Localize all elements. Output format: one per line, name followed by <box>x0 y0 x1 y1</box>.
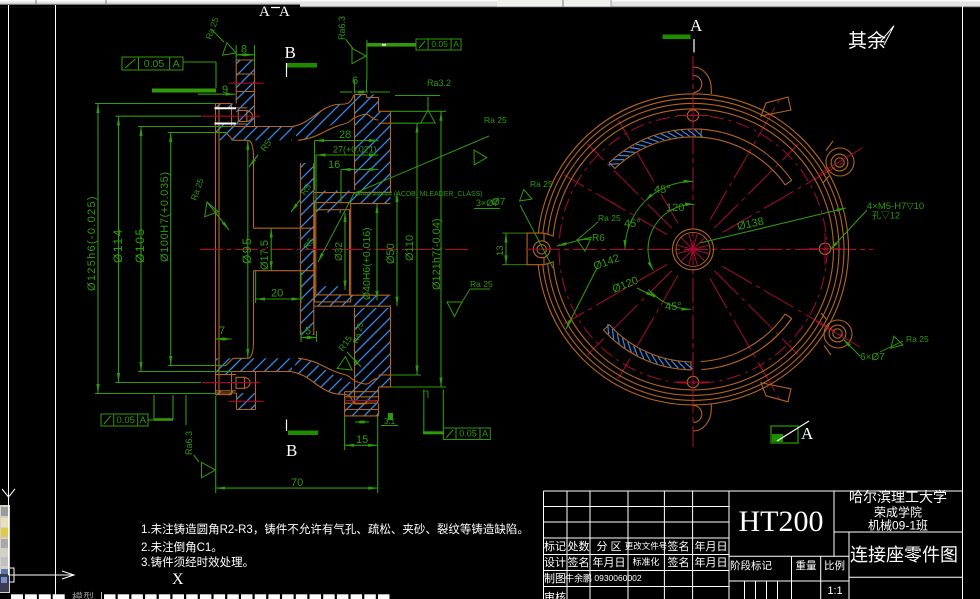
svg-text:Ra3.2: Ra3.2 <box>427 78 451 88</box>
svg-text:Ra 25: Ra 25 <box>470 279 493 289</box>
bottom status/tabs sliver <box>11 594 23 599</box>
svg-text:更改文件号: 更改文件号 <box>625 541 668 551</box>
svg-text:0930060002: 0930060002 <box>594 573 642 583</box>
red bolt circle <box>559 115 827 383</box>
center hub <box>673 229 714 270</box>
svg-text:0.05: 0.05 <box>144 58 165 70</box>
svg-text:Ø40H6(+0.016): Ø40H6(+0.016) <box>361 227 373 300</box>
svg-text:B: B <box>286 441 297 460</box>
svg-text:A: A <box>482 429 488 439</box>
drawing frame border lines <box>8 5 10 593</box>
svg-text:签名: 签名 <box>668 555 690 569</box>
svg-text:审核: 审核 <box>544 590 566 599</box>
svg-text:20: 20 <box>271 288 283 300</box>
svg-text:45°: 45° <box>665 301 682 313</box>
title block <box>544 491 963 599</box>
dim 13 at left ear <box>505 233 507 265</box>
svg-text:年月日: 年月日 <box>593 555 626 569</box>
svg-text:签名: 签名 <box>668 539 690 553</box>
svg-text:45°: 45° <box>654 184 671 196</box>
dims: diameter stack <box>97 104 99 394</box>
svg-text:Ø105: Ø105 <box>133 227 147 263</box>
rim pads at 60 and 240 deg <box>761 97 791 116</box>
svg-text:哈尔滨理工大学: 哈尔滨理工大学 <box>849 489 947 505</box>
left ear <box>527 233 556 265</box>
UCS icon <box>8 483 10 575</box>
svg-text:分 区: 分 区 <box>596 540 621 553</box>
svg-text:Ra6.3: Ra6.3 <box>184 431 194 455</box>
lower-right ear <box>824 320 852 348</box>
svg-text:阶段标记: 阶段标记 <box>730 559 772 572</box>
section view A-A : orange outline <box>216 60 391 416</box>
svg-text:5: 5 <box>305 326 311 338</box>
svg-text:签名: 签名 <box>568 555 590 569</box>
svg-text:模型: 模型 <box>72 590 94 599</box>
svg-text:6×Ø7: 6×Ø7 <box>860 352 885 363</box>
svg-text:16: 16 <box>328 159 340 171</box>
svg-text:Ø121h7(-0.04): Ø121h7(-0.04) <box>431 218 443 290</box>
svg-text:Ø50: Ø50 <box>385 243 397 264</box>
svg-text:Ø17.5: Ø17.5 <box>259 240 271 270</box>
svg-text:2.未注倒角C1。: 2.未注倒角C1。 <box>141 540 223 554</box>
svg-text:R6: R6 <box>592 233 605 244</box>
svg-text:Ra6.3: Ra6.3 <box>337 16 347 40</box>
svg-text:Ø125h6(-0.025): Ø125h6(-0.025) <box>86 195 98 291</box>
left docked toolbar sliver <box>0 505 10 593</box>
svg-text:A: A <box>279 4 290 20</box>
svg-text:#### ##### (ACDB_MLEADER_CLASS: #### ##### (ACDB_MLEADER_CLASS) <box>355 191 483 198</box>
red center axes & spokes <box>536 248 873 250</box>
svg-text:Ra 25: Ra 25 <box>598 213 621 223</box>
svg-text:1:1: 1:1 <box>827 585 842 597</box>
upper-right ear <box>826 148 854 176</box>
svg-text:荣成学院: 荣成学院 <box>874 505 922 520</box>
svg-text:7: 7 <box>219 325 225 337</box>
svg-text:9: 9 <box>222 84 228 96</box>
svg-text:0.05: 0.05 <box>116 415 135 426</box>
arc slots (hatched) <box>609 129 701 169</box>
svg-text:重量: 重量 <box>796 559 817 572</box>
svg-text:连接座零件图: 连接座零件图 <box>850 545 958 565</box>
section red centerlines <box>200 248 470 250</box>
bottom mounting tab <box>693 404 711 431</box>
svg-text:机械09-1班: 机械09-1班 <box>868 518 928 533</box>
svg-text:28: 28 <box>339 129 351 141</box>
svg-text:处数: 处数 <box>568 540 590 553</box>
svg-text:6: 6 <box>352 75 358 87</box>
svg-text:Ra 25: Ra 25 <box>484 115 507 125</box>
svg-text:HT200: HT200 <box>739 505 824 538</box>
svg-text:Ra 25: Ra 25 <box>530 179 553 189</box>
dims: horizontal <box>236 54 254 56</box>
svg-text:27(+0.021): 27(+0.021) <box>333 145 377 155</box>
top mounting tab <box>693 67 711 94</box>
white highlighted tapped hole <box>215 107 237 109</box>
M5 tapped holes <box>687 110 698 121</box>
svg-text:Ø95: Ø95 <box>240 237 254 264</box>
svg-text:A: A <box>259 4 270 20</box>
svg-text:45°: 45° <box>624 218 641 230</box>
svg-text:13: 13 <box>495 245 506 256</box>
svg-text:A: A <box>453 39 459 49</box>
svg-text:Ra 25: Ra 25 <box>906 334 929 344</box>
svg-text:Ø100H7(+0.035): Ø100H7(+0.035) <box>159 171 171 262</box>
flange rings <box>538 94 849 405</box>
svg-text:1.未注铸造圆角R2-R3，铸件不允许有气孔、疏松、夹砂、裂: 1.未注铸造圆角R2-R3，铸件不允许有气孔、疏松、夹砂、裂纹等铸造缺陷。 <box>141 522 529 536</box>
svg-text:孔▽12: 孔▽12 <box>872 211 900 221</box>
right view dims <box>645 181 693 201</box>
svg-text:Ø110: Ø110 <box>404 235 416 261</box>
svg-text:A: A <box>801 424 814 443</box>
svg-text:B: B <box>285 43 296 62</box>
svg-text:70: 70 <box>291 477 303 489</box>
svg-text:3.铸件须经时效处理。: 3.铸件须经时效处理。 <box>141 555 254 569</box>
svg-text:Ø7: Ø7 <box>492 197 506 208</box>
svg-text:制图: 制图 <box>544 572 566 585</box>
svg-text:0.05: 0.05 <box>431 39 448 49</box>
svg-text:牛余鹏: 牛余鹏 <box>565 573 592 584</box>
svg-text:X: X <box>172 571 184 588</box>
svg-text:A: A <box>140 415 147 426</box>
section view A-A : hatched regions <box>236 60 254 127</box>
svg-text:标记: 标记 <box>544 539 566 553</box>
svg-text:标准化: 标准化 <box>632 556 659 567</box>
svg-text:年月日: 年月日 <box>695 555 728 569</box>
svg-text:Ø32: Ø32 <box>334 242 345 261</box>
svg-text:比例: 比例 <box>824 559 845 572</box>
svg-text:年月日: 年月日 <box>695 539 728 553</box>
svg-text:A: A <box>173 58 180 70</box>
svg-text:15: 15 <box>356 434 368 446</box>
svg-text:120°: 120° <box>666 202 689 214</box>
svg-text:设计: 设计 <box>544 556 566 569</box>
svg-text:8: 8 <box>241 44 247 56</box>
svg-text:Ø114: Ø114 <box>111 228 125 263</box>
top toolbar sliver <box>0 0 980 7</box>
svg-text:0.05: 0.05 <box>459 429 477 439</box>
svg-text:A: A <box>690 16 703 35</box>
